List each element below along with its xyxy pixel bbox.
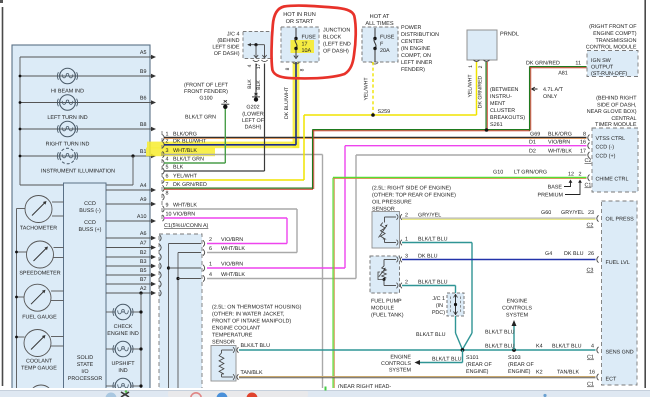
svg-text:SIDE OF DASH,: SIDE OF DASH, [597,102,637,108]
taskbar [0,387,650,397]
pin 2 PRNDL [478,65,484,68]
pin 1 BLK/LT BLU oil sensor [405,236,448,242]
splice S101 [461,348,493,375]
label BLK wire from J/C4 pin17 [256,80,262,90]
pin 4 WHT/BLK C2 [203,272,245,282]
svg-text:WHT/BLK: WHT/BLK [173,203,197,209]
svg-text:C3: C3 [587,268,594,274]
svg-text:G60: G60 [541,210,551,216]
pin 5 BLK C1 [163,165,184,175]
svg-text:INSTRU-: INSTRU- [490,94,512,100]
svg-text:4: 4 [209,272,212,278]
connector C1 dashed line [161,131,163,221]
svg-text:C1: C1 [585,183,592,189]
pin 10 VIO/BRN C1 [163,212,196,222]
svg-text:BLK/LT GRN: BLK/LT GRN [185,115,216,121]
svg-text:(REAR OF: (REAR OF [466,362,492,368]
label FUSE 17 10A [302,35,317,55]
lamp RIGHT TURN IND (B8) [19,121,156,147]
wire C2 internal jumper 6-4 [176,253,201,390]
svg-text:IND: IND [118,368,127,374]
label FUSE F 20A [380,35,395,55]
lamp bottom partial [106,378,143,394]
svg-text:17: 17 [302,42,308,48]
pin 2 DK BLU/WHT C1 [163,139,207,149]
svg-text:HOT IN RUN: HOT IN RUN [283,12,316,18]
pin 12/2 CHIME [493,170,591,189]
gauge COOLANT TEMP GAUGE [17,330,64,372]
svg-text:(BETWEEN: (BETWEEN [490,87,519,93]
svg-text:2: 2 [579,172,582,178]
svg-text:20A: 20A [380,48,390,54]
svg-text:A81: A81 [558,71,568,77]
svg-text:(OTHER: IN WATER JACKET,: (OTHER: IN WATER JACKET, [212,312,285,318]
svg-text:WHT/BLK: WHT/BLK [221,272,245,278]
pin 3 WHT/BLK C1 [163,148,198,158]
wire WHT/BLK C2 pin4 to CCD(+) [207,155,587,279]
label fuel pump module [371,299,404,319]
svg-text:ENGINE: ENGINE [507,299,528,305]
pin 8 VTSS [530,132,590,142]
lamp UPSHIFT IND [106,341,143,374]
svg-text:CHECK: CHECK [114,324,133,330]
junction block J/C 4 [243,32,272,62]
svg-text:J/C 4: J/C 4 [227,32,240,38]
label DK GRN/RED PRNDL vertical [478,75,484,108]
label PREMIUM arrow [538,180,582,199]
svg-text:G100: G100 [199,96,212,102]
svg-text:B5: B5 [140,268,147,274]
svg-text:DK BLU: DK BLU [564,251,584,257]
wire WHT/BLK pin9 loop to C2 pin6 [164,209,297,253]
instrument cluster box [12,45,150,389]
lamp HI BEAM IND (B9) [19,68,156,94]
svg-text:YEL/WHT: YEL/WHT [364,77,370,101]
svg-text:CONTROLS: CONTROLS [502,306,532,312]
svg-text:G4: G4 [545,251,552,257]
svg-text:WHT/BLK: WHT/BLK [221,246,245,252]
PRNDL display box [467,30,519,62]
svg-text:CCD (+): CCD (+) [596,154,616,160]
svg-text:4: 4 [247,64,253,67]
lamp LEFT TURN IND (B6) [19,95,156,121]
svg-text:BLK/LT BLU: BLK/LT BLU [241,343,271,349]
pin 2 BLK/LT BLU fuel pump [405,280,448,286]
svg-text:MODULE: MODULE [371,306,394,312]
svg-text:CLUSTER: CLUSTER [490,108,515,114]
svg-text:BLK/LT GRN: BLK/LT GRN [173,157,204,163]
svg-text:SYSTEM: SYSTEM [389,368,412,374]
wire DK BLU to FUEL LVL [402,259,596,261]
svg-text:A9: A9 [140,197,147,203]
svg-text:I/O: I/O [81,369,88,375]
pin 4 SENS GND [485,344,599,361]
svg-text:FRONT OF INTAKE MANIFOLD): FRONT OF INTAKE MANIFOLD) [212,319,291,325]
svg-text:FUEL GAUGE: FUEL GAUGE [22,314,57,320]
lamp CHECK ENGINE IND [106,304,143,337]
svg-text:BUSS (-): BUSS (-) [79,208,101,214]
svg-text:(ST-RUN-OFF): (ST-RUN-OFF) [591,71,627,77]
svg-text:6: 6 [166,174,169,180]
svg-text:MENT: MENT [490,101,506,107]
label oil pressure sensor [372,186,456,213]
svg-text:(2.5L: RIGHT SIDE OF ENGINE): (2.5L: RIGHT SIDE OF ENGINE) [372,186,451,192]
label near right headlight [338,384,391,390]
svg-text:LEFT OF: LEFT OF [242,118,265,124]
svg-text:UPSHIFT: UPSHIFT [111,361,135,367]
pin 1 PRNDL [468,65,474,68]
svg-text:(BEHIND RIGHT: (BEHIND RIGHT [596,96,637,102]
wire BLK pin5 to J/C4 [164,64,265,172]
svg-text:6: 6 [209,246,212,252]
junction block J/C 1 [447,293,464,316]
svg-text:11: 11 [575,61,581,67]
svg-text:POWER: POWER [401,25,421,31]
svg-text:BLK/ORG: BLK/ORG [548,132,572,138]
svg-text:VTSS CTRL: VTSS CTRL [596,136,626,142]
svg-text:PREMIUM: PREMIUM [538,193,564,199]
svg-text:YEL/WHT: YEL/WHT [173,174,198,180]
wire C2 internal jumper 2-1 [167,244,201,390]
label BLK/LT GRN [185,115,216,121]
solid state I/O processor box [64,183,107,389]
label J/C 4 [212,32,240,58]
label transmission control module [586,24,637,51]
pin 17 J/C4 [256,64,262,70]
label DK GRN/RED 11 A81 [526,61,581,77]
svg-text:WHT/BLK: WHT/BLK [173,148,197,154]
pin 11 TCM arc [587,64,589,70]
svg-text:DISTRIBUTION: DISTRIBUTION [401,32,439,38]
svg-text:BLK/ORG: BLK/ORG [173,132,197,138]
svg-text:(LEFT END: (LEFT END [323,42,351,48]
svg-text:HOT AT: HOT AT [370,14,390,20]
svg-text:TRANSMISSION: TRANSMISSION [595,38,636,44]
svg-text:A5: A5 [140,50,147,56]
svg-text:(FRONT OF LEFT: (FRONT OF LEFT [184,83,229,89]
svg-text:STATE: STATE [77,362,94,368]
svg-text:C1: C1 [587,355,594,361]
svg-text:NEAR GLOVE BOX): NEAR GLOVE BOX) [587,109,637,115]
svg-text:C1: C1 [587,382,594,388]
svg-text:C2: C2 [587,223,594,229]
label engine controls system left [381,355,462,374]
label POWER DISTRIBUTION CENTER [401,25,439,73]
wire BLK/ORG pin1 to VTSS CTRL [164,137,587,138]
svg-text:BLK/LT BLU: BLK/LT BLU [418,236,448,242]
node B5 [106,268,156,277]
label engine controls system top [502,299,532,319]
svg-text:9: 9 [166,203,169,209]
pin 4 J/C4 [247,64,253,67]
red pen circle around fuse [272,6,356,79]
pin 7 DK GRN/RED C1 [163,182,207,192]
top-left corner mark [0,0,3,3]
wire left rail of cluster [20,57,64,185]
svg-text:DASH): DASH) [245,125,262,131]
label C1 connector [164,223,209,229]
svg-text:COOLANT: COOLANT [26,359,53,365]
svg-text:FENDER): FENDER) [401,67,425,73]
svg-text:C2: C2 [585,158,592,164]
svg-text:D2: D2 [529,149,536,155]
svg-text:8: 8 [583,132,586,138]
node A9 [106,197,156,206]
wire DK GRN/RED pin7 via S261 to A81 [164,67,587,190]
label HOT IN RUN OR START [283,12,316,25]
label BLK wire from J/C4 pin4 [247,79,253,89]
svg-text:8: 8 [300,68,306,71]
svg-text:OF DASH): OF DASH) [214,51,240,57]
left window border [2,7,4,386]
node A10 [106,214,156,223]
svg-text:1: 1 [405,236,408,242]
pin 9 WHT/BLK C1 [163,203,198,213]
svg-text:ONLY: ONLY [543,94,558,100]
connector C2 dashed box [159,234,202,390]
svg-text:B2: B2 [140,250,147,256]
svg-text:17: 17 [256,64,262,70]
svg-text:G202: G202 [246,105,259,111]
svg-text:(RIGHT FRONT OF: (RIGHT FRONT OF [589,24,637,30]
pin 23 OIL PRESS [541,210,599,229]
svg-text:(OTHER: TOP REAR OF ENGINE): (OTHER: TOP REAR OF ENGINE) [372,193,456,199]
svg-text:TAN/BLK: TAN/BLK [241,370,263,376]
svg-text:12: 12 [568,172,574,178]
svg-text:ENGINE: ENGINE [390,355,411,361]
svg-text:10A: 10A [302,48,312,54]
wire BLK/LT BLU oil sensor to S101 [402,243,472,349]
wire TAN/BLK to ECT pin [239,377,596,378]
svg-text:LEFT TURN IND: LEFT TURN IND [47,115,87,121]
svg-text:A7: A7 [140,241,147,247]
svg-text:5: 5 [166,165,169,171]
svg-text:DK GRN/RED: DK GRN/RED [478,75,484,108]
wire BLK J/C4 pin4 to G202 [255,64,257,97]
svg-text:YEL/WHT: YEL/WHT [468,74,474,98]
svg-text:A2: A2 [140,286,147,292]
svg-text:LEFT SIDE: LEFT SIDE [212,45,240,51]
wire BLK/LT BLU S101 to engine controls [415,350,463,365]
svg-text:2: 2 [405,280,408,286]
node A6 [106,231,156,240]
svg-text:K2: K2 [536,370,543,376]
svg-text:SENS GND: SENS GND [606,350,634,356]
svg-text:2: 2 [166,139,169,145]
wire BLK/LT BLU fuel pump to J/C1 [402,286,456,294]
svg-text:FUEL LVL: FUEL LVL [606,260,630,266]
svg-text:FRONT FENDER): FRONT FENDER) [184,89,228,95]
wire WHT/BLK pin3 down [164,155,323,390]
svg-text:1: 1 [468,65,474,68]
svg-text:S259: S259 [378,109,391,115]
svg-text:BUSS (+): BUSS (+) [79,227,102,233]
lamp INSTRUMENT ILLUMINATION (B1) [19,148,156,185]
node B2 [106,250,156,259]
svg-text:TAN/BLK: TAN/BLK [557,370,579,376]
svg-text:PRNDL: PRNDL [500,32,519,38]
label BLK/LT BLU ECT [241,343,271,349]
wire DK BLU/WHT pin2 to fuse 17 [164,57,296,145]
svg-text:BREAKOUTS): BREAKOUTS) [490,115,525,121]
svg-text:1: 1 [209,262,212,268]
svg-text:B7: B7 [140,277,147,283]
wire GRY/YEL to OIL PRESS [402,218,596,219]
svg-text:(IN: (IN [436,303,443,309]
pin 4 BLK/LT GRN C1 [163,157,205,167]
node A7 [106,241,156,250]
svg-text:3: 3 [166,148,169,154]
svg-text:D1: D1 [529,139,536,145]
svg-text:CCD: CCD [84,201,96,207]
svg-text:TIMER MODULE: TIMER MODULE [595,122,637,128]
svg-text:TEMPERATURE: TEMPERATURE [212,333,253,339]
svg-text:A10: A10 [137,214,147,220]
node B7 [106,277,156,286]
wire BLK/LT BLU S103 to engine controls [512,320,517,350]
svg-text:7: 7 [166,182,169,188]
right window border [644,0,646,388]
svg-text:26: 26 [588,251,594,257]
svg-text:BLK: BLK [247,79,253,89]
svg-text:BLK: BLK [256,80,262,90]
svg-text:DK GRN/RED: DK GRN/RED [173,182,207,188]
node A2 [106,286,156,295]
label DK BLU/WHT vertical [284,86,290,119]
svg-text:CCD: CCD [84,220,96,226]
label BLK/LT BLU above bus [485,330,515,336]
svg-text:3: 3 [405,254,408,260]
wire VIO/BRN C2 pin1 to CCD(-) [207,146,587,268]
svg-text:(REAR OF: (REAR OF [508,362,534,368]
svg-text:TACHOMETER: TACHOMETER [20,226,57,232]
svg-text:2: 2 [209,237,212,243]
svg-text:INSTRUMENT ILLUMINATION: INSTRUMENT ILLUMINATION [41,169,115,175]
label J/C 1 [432,296,445,316]
sensor oil pressure box [372,212,402,249]
highlighter on DK BLU/WHT wire [146,53,299,156]
svg-text:DK BLU: DK BLU [418,254,438,260]
splice S259 [371,109,390,117]
svg-text:ENGINE COOLANT: ENGINE COOLANT [212,326,261,332]
svg-text:ENGINE): ENGINE) [466,369,489,375]
svg-text:JUNCTION: JUNCTION [323,28,350,34]
svg-text:CONTROL MODULE: CONTROL MODULE [586,45,637,51]
pin 17 CCD(+) [529,149,591,164]
svg-text:VIO/BRN: VIO/BRN [173,212,195,218]
gauge SPEEDOMETER [17,241,64,277]
svg-text:VIO/BRN: VIO/BRN [221,237,243,243]
svg-text:HI BEAM IND: HI BEAM IND [51,89,84,95]
splice S261 [485,87,526,132]
svg-text:FUEL PUMP: FUEL PUMP [371,299,402,305]
svg-text:(IN ENGINE: (IN ENGINE [401,46,431,52]
svg-text:OUTPUT: OUTPUT [591,65,614,71]
svg-text:TEMP GAUGE: TEMP GAUGE [21,366,57,372]
svg-text:BLK/LT BLU: BLK/LT BLU [416,332,446,338]
gauge TACHOMETER [17,196,64,232]
node A5 [20,50,156,59]
svg-text:A6: A6 [140,231,147,237]
node A4 [106,183,156,192]
svg-text:B8: B8 [140,122,147,128]
module central timer box [592,128,638,192]
svg-text:CHIME CTRL: CHIME CTRL [596,177,629,183]
pin 2 GRY/YEL oil sensor [405,213,441,219]
svg-text:17: 17 [580,149,586,155]
svg-text:SOLID: SOLID [77,355,93,361]
pin 6 WHT/BLK C2 [203,246,245,256]
label BASE arrow [548,180,573,191]
label TAN/BLK ECT [241,370,263,376]
svg-text:8: 8 [166,191,169,197]
svg-text:OIL PRESS: OIL PRESS [606,217,635,223]
gauge partial bottom [29,385,53,397]
svg-text:B6: B6 [140,96,147,102]
pin 1 VIO/BRN C2 [203,262,243,272]
label 4.7L A/T ONLY [532,87,564,100]
svg-text:IGN SW: IGN SW [591,58,612,64]
svg-text:A4: A4 [140,183,147,189]
svg-text:LEFT INNER: LEFT INNER [401,60,432,66]
svg-text:BLK/LT BLU: BLK/LT BLU [485,344,515,350]
label YEL/WHT vertical [364,77,370,101]
svg-text:PDC): PDC) [432,310,445,316]
svg-text:4: 4 [591,344,594,350]
svg-text:B3: B3 [140,259,147,265]
svg-text:10: 10 [166,212,172,218]
svg-text:VIO/BRN: VIO/BRN [548,139,570,145]
svg-text:16: 16 [589,370,595,376]
svg-text:ENGINE): ENGINE) [508,369,531,375]
svg-text:CONTROLS: CONTROLS [381,361,411,367]
svg-text:C1(5%U/CONN A): C1(5%U/CONN A) [164,223,209,229]
svg-text:(BEHIND: (BEHIND [217,38,239,44]
sensor ECT box [211,346,238,382]
pin 26 FUEL LVL [545,251,599,274]
svg-text:(FUEL TANK): (FUEL TANK) [371,313,404,319]
svg-text:COMPT, ON: COMPT, ON [401,53,431,59]
svg-text:23: 23 [588,210,594,216]
label engine coolant temperature sensor [212,305,302,346]
fuse F 20A box [362,27,398,64]
svg-text:BLK: BLK [173,165,184,171]
wire LT GRN/ORG chime [333,177,587,389]
wire BLK/LT BLU sensor ground bus [239,349,596,351]
C2 left edge pin chevrons [160,235,162,296]
pin 8 below fuse [285,67,306,71]
svg-text:G69: G69 [530,132,540,138]
pin 3 DK BLU fuel pump [405,254,438,260]
svg-text:SPEEDOMETER: SPEEDOMETER [19,271,60,277]
svg-text:S101: S101 [466,355,479,361]
node B3 [106,259,156,268]
svg-text:OIL PRESSURE: OIL PRESSURE [372,200,412,206]
svg-text:4.7L A/T: 4.7L A/T [543,87,564,93]
svg-text:FUSE: FUSE [380,35,395,41]
svg-text:K4: K4 [536,344,543,350]
svg-text:OF DASH): OF DASH) [323,49,349,55]
svg-text:S103: S103 [508,355,521,361]
svg-text:4: 4 [166,157,169,163]
svg-text:(2.5L: ON THERMOSTAT HOUSING): (2.5L: ON THERMOSTAT HOUSING) [212,305,302,311]
svg-text:CENTRAL: CENTRAL [611,116,636,122]
svg-text:GRY/YEL: GRY/YEL [561,210,584,216]
svg-text:BLK/LT BLU: BLK/LT BLU [552,344,582,350]
svg-text:RIGHT TURN IND: RIGHT TURN IND [46,142,90,148]
svg-text:S261: S261 [490,122,503,128]
svg-text:CCD (-): CCD (-) [596,145,615,151]
